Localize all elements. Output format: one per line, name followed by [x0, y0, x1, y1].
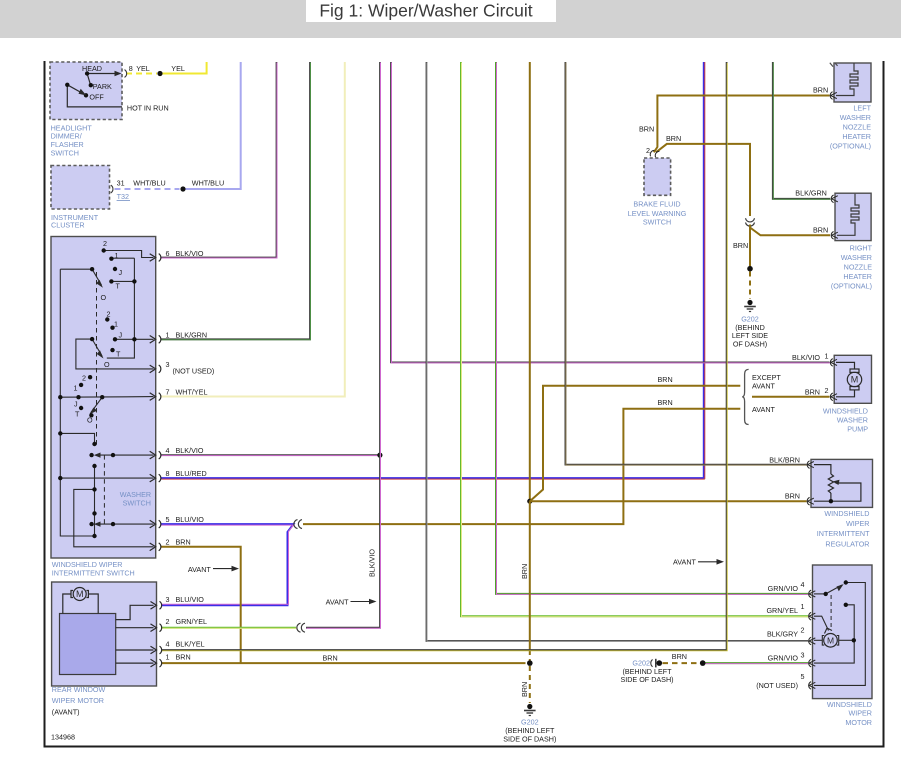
wire BRN ground bus solid below junction — [529, 501, 531, 650]
left heater top-left connector tick — [830, 63, 838, 67]
pin 7 connector — [150, 393, 156, 401]
svg-text:BLK/BRN: BLK/BRN — [769, 455, 800, 464]
junction node BLK/VIO pin4 on vertical — [377, 453, 382, 458]
svg-text:REAR WINDOW: REAR WINDOW — [52, 685, 106, 694]
svg-text:7: 7 — [166, 388, 170, 397]
avant arrow 3 — [698, 561, 718, 563]
svg-text:GRN/VIO: GRN/VIO — [768, 654, 799, 663]
header white title plate — [306, 0, 556, 22]
diagram frame left border — [44, 61, 46, 747]
instrument cluster box — [51, 166, 110, 210]
svg-text:T: T — [116, 282, 121, 291]
washer contact B lead to pin 5 — [98, 523, 154, 525]
wire BRN from connector via AVANT to brace — [303, 409, 740, 524]
junction node BRN/rear pin1 — [527, 660, 533, 666]
switch linkage dashed washer — [103, 455, 105, 524]
svg-text:BRN: BRN — [666, 134, 681, 143]
pump pin 2 connector — [830, 393, 832, 401]
svg-text:(NOT USED): (NOT USED) — [756, 681, 798, 690]
svg-text:2: 2 — [801, 625, 805, 634]
svg-text:WHT/BLU: WHT/BLU — [133, 178, 165, 187]
avant arrow 2 — [351, 601, 371, 603]
svg-text:BLK/GRN: BLK/GRN — [176, 331, 208, 340]
regulator junction dot — [829, 499, 833, 503]
wire BRN junction to regulator pin — [530, 500, 807, 502]
svg-text:WIPER: WIPER — [848, 709, 872, 718]
svg-text:BLU/RED: BLU/RED — [176, 469, 207, 478]
svg-text:BLK/VIO: BLK/VIO — [792, 353, 820, 362]
svg-text:O: O — [104, 360, 110, 369]
dimmer contact dots — [85, 71, 89, 75]
motor dashed linkage — [830, 595, 832, 631]
svg-text:BRN: BRN — [323, 653, 338, 662]
dimmer pin 8 connector arc — [125, 70, 127, 78]
svg-text:(OPTIONAL): (OPTIONAL) — [831, 282, 872, 291]
motor pin 2 connector — [809, 637, 811, 645]
svg-text:BLU/VIO: BLU/VIO — [176, 595, 205, 604]
section B arm arrowhead — [97, 350, 104, 358]
svg-text:SWITCH: SWITCH — [643, 217, 671, 226]
section C arm arrowhead — [89, 408, 97, 415]
svg-text:PARK: PARK — [93, 82, 112, 91]
inline connector on BLU/VIO wire — [294, 520, 302, 529]
svg-text:HEAD: HEAD — [82, 64, 102, 73]
svg-text:BRN: BRN — [658, 398, 673, 407]
wire WHT/BLU dashed segment from cluster pin 31 — [115, 188, 180, 190]
brake fluid level warning switch box — [644, 158, 671, 195]
svg-text:O: O — [101, 293, 107, 302]
regulator pin BLK/BRN connector — [807, 461, 809, 469]
svg-text:O: O — [87, 416, 93, 425]
wire BLK/VIO pin 4 to junction — [161, 454, 380, 457]
svg-text:BLK/GRY: BLK/GRY — [767, 630, 798, 639]
svg-text:T: T — [116, 350, 121, 359]
section A contact 2 lead to pin 6 — [104, 251, 154, 258]
svg-text:SIDE OF DASH): SIDE OF DASH) — [620, 675, 673, 684]
pin 5 connector — [150, 520, 156, 528]
motor pin 1 connector — [809, 612, 811, 620]
wire BLK/VIO vertical bus from top to GRN/YEL connector — [306, 62, 381, 628]
svg-text:LEFT SIDE: LEFT SIDE — [732, 331, 768, 340]
svg-text:1: 1 — [115, 251, 119, 260]
diagram frame bottom border — [44, 746, 885, 748]
pin 8 internal lead — [60, 477, 153, 479]
svg-text:WINDSHIELD: WINDSHIELD — [824, 509, 869, 518]
svg-text:BRN: BRN — [785, 491, 800, 500]
svg-text:4: 4 — [166, 640, 170, 649]
svg-text:2: 2 — [103, 239, 107, 248]
instrument cluster pin 31 connector arc — [111, 185, 113, 193]
svg-text:GRN/YEL: GRN/YEL — [176, 617, 208, 626]
svg-text:BLK/GRN: BLK/GRN — [795, 189, 827, 198]
motor pin 1 lead diagonal — [814, 616, 829, 630]
svg-text:J: J — [119, 268, 123, 277]
svg-text:1: 1 — [114, 320, 118, 329]
svg-text:AVANT: AVANT — [752, 382, 776, 391]
svg-text:WIPER MOTOR: WIPER MOTOR — [52, 696, 104, 705]
svg-text:AVANT: AVANT — [752, 405, 776, 414]
svg-text:BRN: BRN — [733, 241, 748, 250]
rear motor pin 4 lead — [116, 649, 154, 651]
rear motor pin 1 lead — [116, 662, 154, 664]
rear motor M circle — [73, 588, 86, 601]
svg-text:5: 5 — [801, 672, 805, 681]
svg-text:J: J — [119, 331, 123, 340]
svg-text:G202: G202 — [741, 314, 759, 323]
wire GRN/VIO from top to wiper motor pin 4 — [496, 62, 809, 594]
svg-text:GRN/YEL: GRN/YEL — [766, 606, 798, 615]
rear window wiper motor inner block — [60, 614, 116, 675]
inline connector on GRN/YEL wire — [297, 623, 305, 632]
junction node G202 tap left — [657, 660, 663, 666]
brake fluid pin 2 connector — [650, 150, 654, 156]
svg-text:REGULATOR: REGULATOR — [825, 539, 869, 548]
section B arm — [92, 339, 102, 356]
wire BLK/VIO bus 2 from top to washer pump pin 1 — [391, 62, 830, 363]
regulator pin BRN connector — [807, 497, 809, 505]
svg-text:HOT IN RUN: HOT IN RUN — [127, 104, 169, 113]
pin 8 connector — [150, 474, 156, 482]
svg-text:BRN: BRN — [813, 225, 828, 234]
dimmer arm pivot to OFF — [67, 85, 84, 94]
svg-text:134968: 134968 — [51, 733, 75, 742]
motor tilted brush top-left — [825, 628, 833, 634]
rear window wiper motor box — [52, 582, 157, 686]
svg-text:1: 1 — [825, 352, 829, 361]
svg-text:NOZZLE: NOZZLE — [844, 263, 873, 272]
svg-text:2: 2 — [107, 310, 111, 319]
motor park switch arm — [826, 585, 842, 594]
rear motor pin 2 lead — [116, 627, 154, 629]
svg-text:WASHER: WASHER — [841, 253, 872, 262]
svg-text:OF DASH): OF DASH) — [733, 340, 767, 349]
svg-text:INTERMITTENT SWITCH: INTERMITTENT SWITCH — [52, 568, 135, 577]
svg-text:1: 1 — [166, 653, 170, 662]
wire BLK/GRN right heater to top — [773, 62, 831, 199]
svg-text:2: 2 — [82, 374, 86, 383]
diagram frame right border — [883, 61, 885, 747]
rear pin 2 connector — [151, 624, 157, 632]
svg-text:WINDSHIELD: WINDSHIELD — [823, 407, 868, 416]
svg-text:LEFT: LEFT — [853, 104, 871, 113]
svg-text:8: 8 — [166, 469, 170, 478]
wire BRN brake fluid switch to right heater via connector — [656, 144, 750, 216]
svg-text:INTERMITTENT: INTERMITTENT — [817, 529, 870, 538]
motor park arm arrowhead — [837, 584, 844, 591]
motor brushes — [822, 636, 824, 646]
section A pivot feed from left rail — [60, 268, 92, 270]
svg-text:(NOT USED): (NOT USED) — [173, 366, 215, 375]
svg-text:SWITCH: SWITCH — [123, 498, 151, 507]
wire BRN dashed to ground G202 mid — [749, 272, 751, 300]
wire BLK/YEL rear motor pin 4 to top — [161, 62, 727, 651]
svg-text:WIPER: WIPER — [846, 519, 870, 528]
svg-text:HEATER: HEATER — [843, 272, 872, 281]
svg-text:SWITCH: SWITCH — [51, 148, 79, 157]
svg-text:T32: T32 — [117, 192, 129, 201]
junction node on YEL wire — [157, 71, 162, 76]
pin 1 connector — [150, 336, 156, 344]
rear motor pin 3 lead — [116, 605, 154, 619]
section A arm arrowhead — [96, 280, 103, 288]
wire BRN below connector to right heater — [750, 225, 830, 236]
wire GRN/VIO wiper motor pin 3 — [705, 662, 808, 665]
wire BRN except-avant: junction up to brace — [530, 386, 741, 502]
section B pivot to pin 3 u-path — [76, 339, 154, 369]
svg-text:2: 2 — [646, 146, 650, 155]
wire GRN/YEL rear motor pin 2 to inline connector — [161, 627, 296, 630]
header gray bar — [0, 0, 901, 38]
svg-text:HEATER: HEATER — [842, 132, 871, 141]
wire BLK/BRN from top to regulator pin — [565, 62, 807, 465]
svg-text:3: 3 — [166, 595, 170, 604]
svg-text:3: 3 — [166, 360, 170, 369]
G202 tap connector glyph — [651, 659, 656, 668]
svg-text:4: 4 — [166, 446, 170, 455]
pump pin 1 connector — [830, 359, 832, 367]
windshield wiper motor box — [813, 565, 873, 699]
rear pin 4 connector — [151, 646, 157, 654]
rear pin 3 connector — [151, 602, 157, 610]
svg-text:31: 31 — [117, 178, 125, 187]
rear pin 1 connector — [151, 659, 157, 667]
washer contact B arrowhead — [94, 522, 101, 527]
washer bar — [94, 466, 96, 536]
svg-text:M: M — [827, 636, 834, 646]
motor pin 3 lead up — [814, 640, 854, 663]
switch contact letter labels — [74, 239, 123, 425]
junction node BRN ground mid — [747, 266, 753, 272]
dimmer arm HEAD-PARK — [87, 74, 90, 85]
svg-text:OFF: OFF — [89, 93, 104, 102]
svg-text:(AVANT): (AVANT) — [52, 708, 80, 717]
svg-text:PUMP: PUMP — [847, 425, 868, 434]
wire BRN ground bus dashed to junction dot — [529, 650, 531, 661]
dimmer hot-in-run feed line — [67, 85, 122, 107]
avant arrow 1 — [213, 568, 233, 570]
right heater pin BLK/GRN connector — [831, 195, 833, 203]
regulator wiper arrowhead — [833, 480, 840, 485]
pin 2 connector — [150, 543, 156, 551]
svg-text:BLK/YEL: BLK/YEL — [176, 640, 205, 649]
wire WHT/YEL pin 7 to top — [161, 62, 345, 397]
wire BLK/GRY from top to wiper motor pin 2 — [427, 62, 809, 642]
pin 6 connector — [150, 254, 156, 262]
wire BRN main ground bus vertical — [529, 62, 531, 501]
wire BRN rear motor pin 1 — [161, 662, 525, 664]
svg-text:M: M — [76, 589, 84, 599]
junction node BRN at regulator feed — [527, 499, 532, 504]
section A contact 1 lead — [113, 257, 135, 259]
inline connector on BRN vertical — [746, 218, 755, 226]
svg-text:BLU/VIO: BLU/VIO — [176, 515, 205, 524]
motor park lead to right rail — [814, 583, 865, 686]
pump pin1 internal lead — [836, 362, 855, 369]
wire BLK/VIO pin 6 to top — [161, 62, 277, 258]
svg-text:CLUSTER: CLUSTER — [51, 220, 85, 229]
svg-text:BRN: BRN — [813, 86, 828, 95]
wire BRN pin 2 intermittent switch down to rear BRN — [161, 547, 241, 663]
svg-text:2: 2 — [166, 538, 170, 547]
section A link bar down to pin1 row — [133, 258, 135, 339]
regulator top lead — [814, 465, 831, 474]
washer feed top — [60, 433, 94, 444]
dimmer pin 8 arrowhead — [115, 71, 122, 77]
motor pin 2 lead — [814, 639, 822, 641]
wire WHT/BLU solid to top — [186, 62, 241, 189]
svg-text:BRN: BRN — [176, 653, 191, 662]
svg-text:5: 5 — [166, 515, 170, 524]
motor pin 5 connector — [809, 682, 811, 690]
svg-text:MOTOR: MOTOR — [845, 718, 872, 727]
svg-text:RIGHT: RIGHT — [850, 244, 873, 253]
svg-text:YEL: YEL — [171, 64, 185, 73]
svg-text:YEL: YEL — [136, 64, 150, 73]
washer tap to pin 2 path — [74, 489, 154, 546]
svg-text:8: 8 — [129, 64, 133, 73]
pump motor brushes — [850, 369, 859, 372]
svg-text:1: 1 — [74, 384, 78, 393]
svg-text:WHT/YEL: WHT/YEL — [176, 388, 208, 397]
regulator resistor zigzag — [828, 474, 833, 493]
motor pin 4 lead — [814, 593, 826, 595]
svg-text:1: 1 — [166, 331, 170, 340]
svg-text:SIDE OF DASH): SIDE OF DASH) — [503, 735, 556, 744]
washer contact A lead to pin 4 — [98, 454, 154, 456]
left washer nozzle heater box — [834, 63, 871, 102]
motor pin 4 connector — [809, 590, 811, 598]
wire BRN to washer pump pin 2 from brace — [752, 396, 830, 398]
section B pin1 lead from J — [115, 338, 154, 340]
dimmer OFF arrowhead — [79, 89, 87, 96]
svg-text:T: T — [75, 410, 80, 419]
svg-text:BRAKE FLUID: BRAKE FLUID — [633, 200, 680, 209]
junction node on WHT/BLU wire — [180, 186, 185, 191]
svg-text:BRN: BRN — [520, 682, 529, 697]
svg-text:WASHER: WASHER — [837, 416, 868, 425]
svg-text:BLK/VIO: BLK/VIO — [176, 446, 204, 455]
svg-text:AVANT: AVANT — [326, 598, 350, 607]
ground symbol G202 mid — [744, 300, 756, 312]
wire BLK/GRN pin 1 to top — [161, 62, 311, 340]
windshield wiper intermittent switch box — [51, 237, 156, 559]
section B link bar extension — [107, 339, 135, 358]
svg-text:GRN/VIO: GRN/VIO — [768, 584, 799, 593]
wire GRN/YEL from top to wiper motor pin 1 — [461, 62, 809, 617]
section A arm — [92, 269, 101, 285]
wire BRN dashed G202 tap — [663, 662, 699, 664]
svg-text:4: 4 — [801, 580, 805, 589]
svg-text:AVANT: AVANT — [188, 565, 212, 574]
svg-text:BRN: BRN — [176, 538, 191, 547]
regulator wiper arm rectangle — [814, 483, 861, 501]
left internal rail — [60, 269, 94, 536]
svg-text:WHT/BLU: WHT/BLU — [192, 178, 224, 187]
wire YEL solid to top — [163, 62, 207, 74]
svg-text:(OPTIONAL): (OPTIONAL) — [830, 142, 871, 151]
junction node G202 tap right — [700, 660, 706, 666]
motor output to right — [839, 639, 855, 641]
svg-text:NOZZLE: NOZZLE — [843, 123, 872, 132]
windshield washer pump box — [834, 355, 871, 403]
motor park contact branch — [846, 605, 854, 641]
left heater pin connector — [830, 92, 832, 100]
section C arm — [91, 397, 102, 412]
wire BLU/VIO pin 5 to rear motor pin 3 — [161, 524, 294, 605]
regulator resistor bottom lead — [830, 493, 832, 501]
pump M circle — [847, 372, 861, 386]
svg-text:3: 3 — [801, 650, 805, 659]
rear motor wiring to inner block — [63, 594, 71, 614]
dimmer HEAD contact line to pin 8 — [87, 73, 117, 75]
right heater pin BRN connector — [831, 232, 833, 240]
wire BRN left washer nozzle heater to brake fluid switch — [654, 96, 830, 153]
svg-text:BRN: BRN — [520, 564, 529, 579]
svg-text:Fig 1: Wiper/Washer Circuit: Fig 1: Wiper/Washer Circuit — [319, 1, 532, 21]
svg-text:BRN: BRN — [658, 375, 673, 384]
svg-text:BRN: BRN — [672, 652, 687, 661]
svg-text:J: J — [74, 400, 78, 409]
svg-text:6: 6 — [166, 249, 170, 258]
svg-text:2: 2 — [825, 386, 829, 395]
right washer nozzle heater box — [835, 193, 871, 240]
section A contact T lead — [111, 280, 134, 282]
svg-text:BRN: BRN — [639, 124, 654, 133]
wire YEL dashed segment from dimmer pin 8 — [126, 73, 157, 75]
svg-text:BRN: BRN — [805, 387, 820, 396]
headlight dimmer/flasher switch box — [50, 62, 122, 120]
svg-text:M: M — [851, 375, 859, 385]
pump pin2 internal lead — [836, 390, 855, 397]
motor pin 3 connector — [809, 659, 811, 667]
washer contact A arrowhead — [94, 453, 101, 458]
switch linkage dashed upper — [96, 272, 98, 445]
pin 3 connector — [150, 365, 156, 373]
motor contact dots — [824, 592, 828, 596]
motor M circle — [824, 634, 838, 648]
windshield wiper intermittent regulator box — [811, 459, 873, 507]
section C row rail to pin 7 — [60, 396, 153, 399]
svg-text:AVANT: AVANT — [673, 558, 697, 567]
wire BLU/RED pin 8 to top — [161, 62, 705, 479]
pin 4 connector — [150, 451, 156, 459]
svg-text:1: 1 — [801, 602, 805, 611]
wire BRN stub down to junction then dashed to ground G202 mid — [749, 225, 751, 267]
wire BRN dashed to ground G202 bottom — [529, 666, 531, 703]
svg-text:2: 2 — [166, 617, 170, 626]
svg-text:WASHER: WASHER — [840, 113, 871, 122]
rear motor brushes — [63, 591, 154, 664]
ground symbol G202 bottom — [524, 704, 536, 716]
svg-text:BLK/VIO: BLK/VIO — [368, 549, 377, 577]
switch contact dots — [58, 248, 136, 538]
svg-text:BLK/VIO: BLK/VIO — [176, 249, 204, 258]
